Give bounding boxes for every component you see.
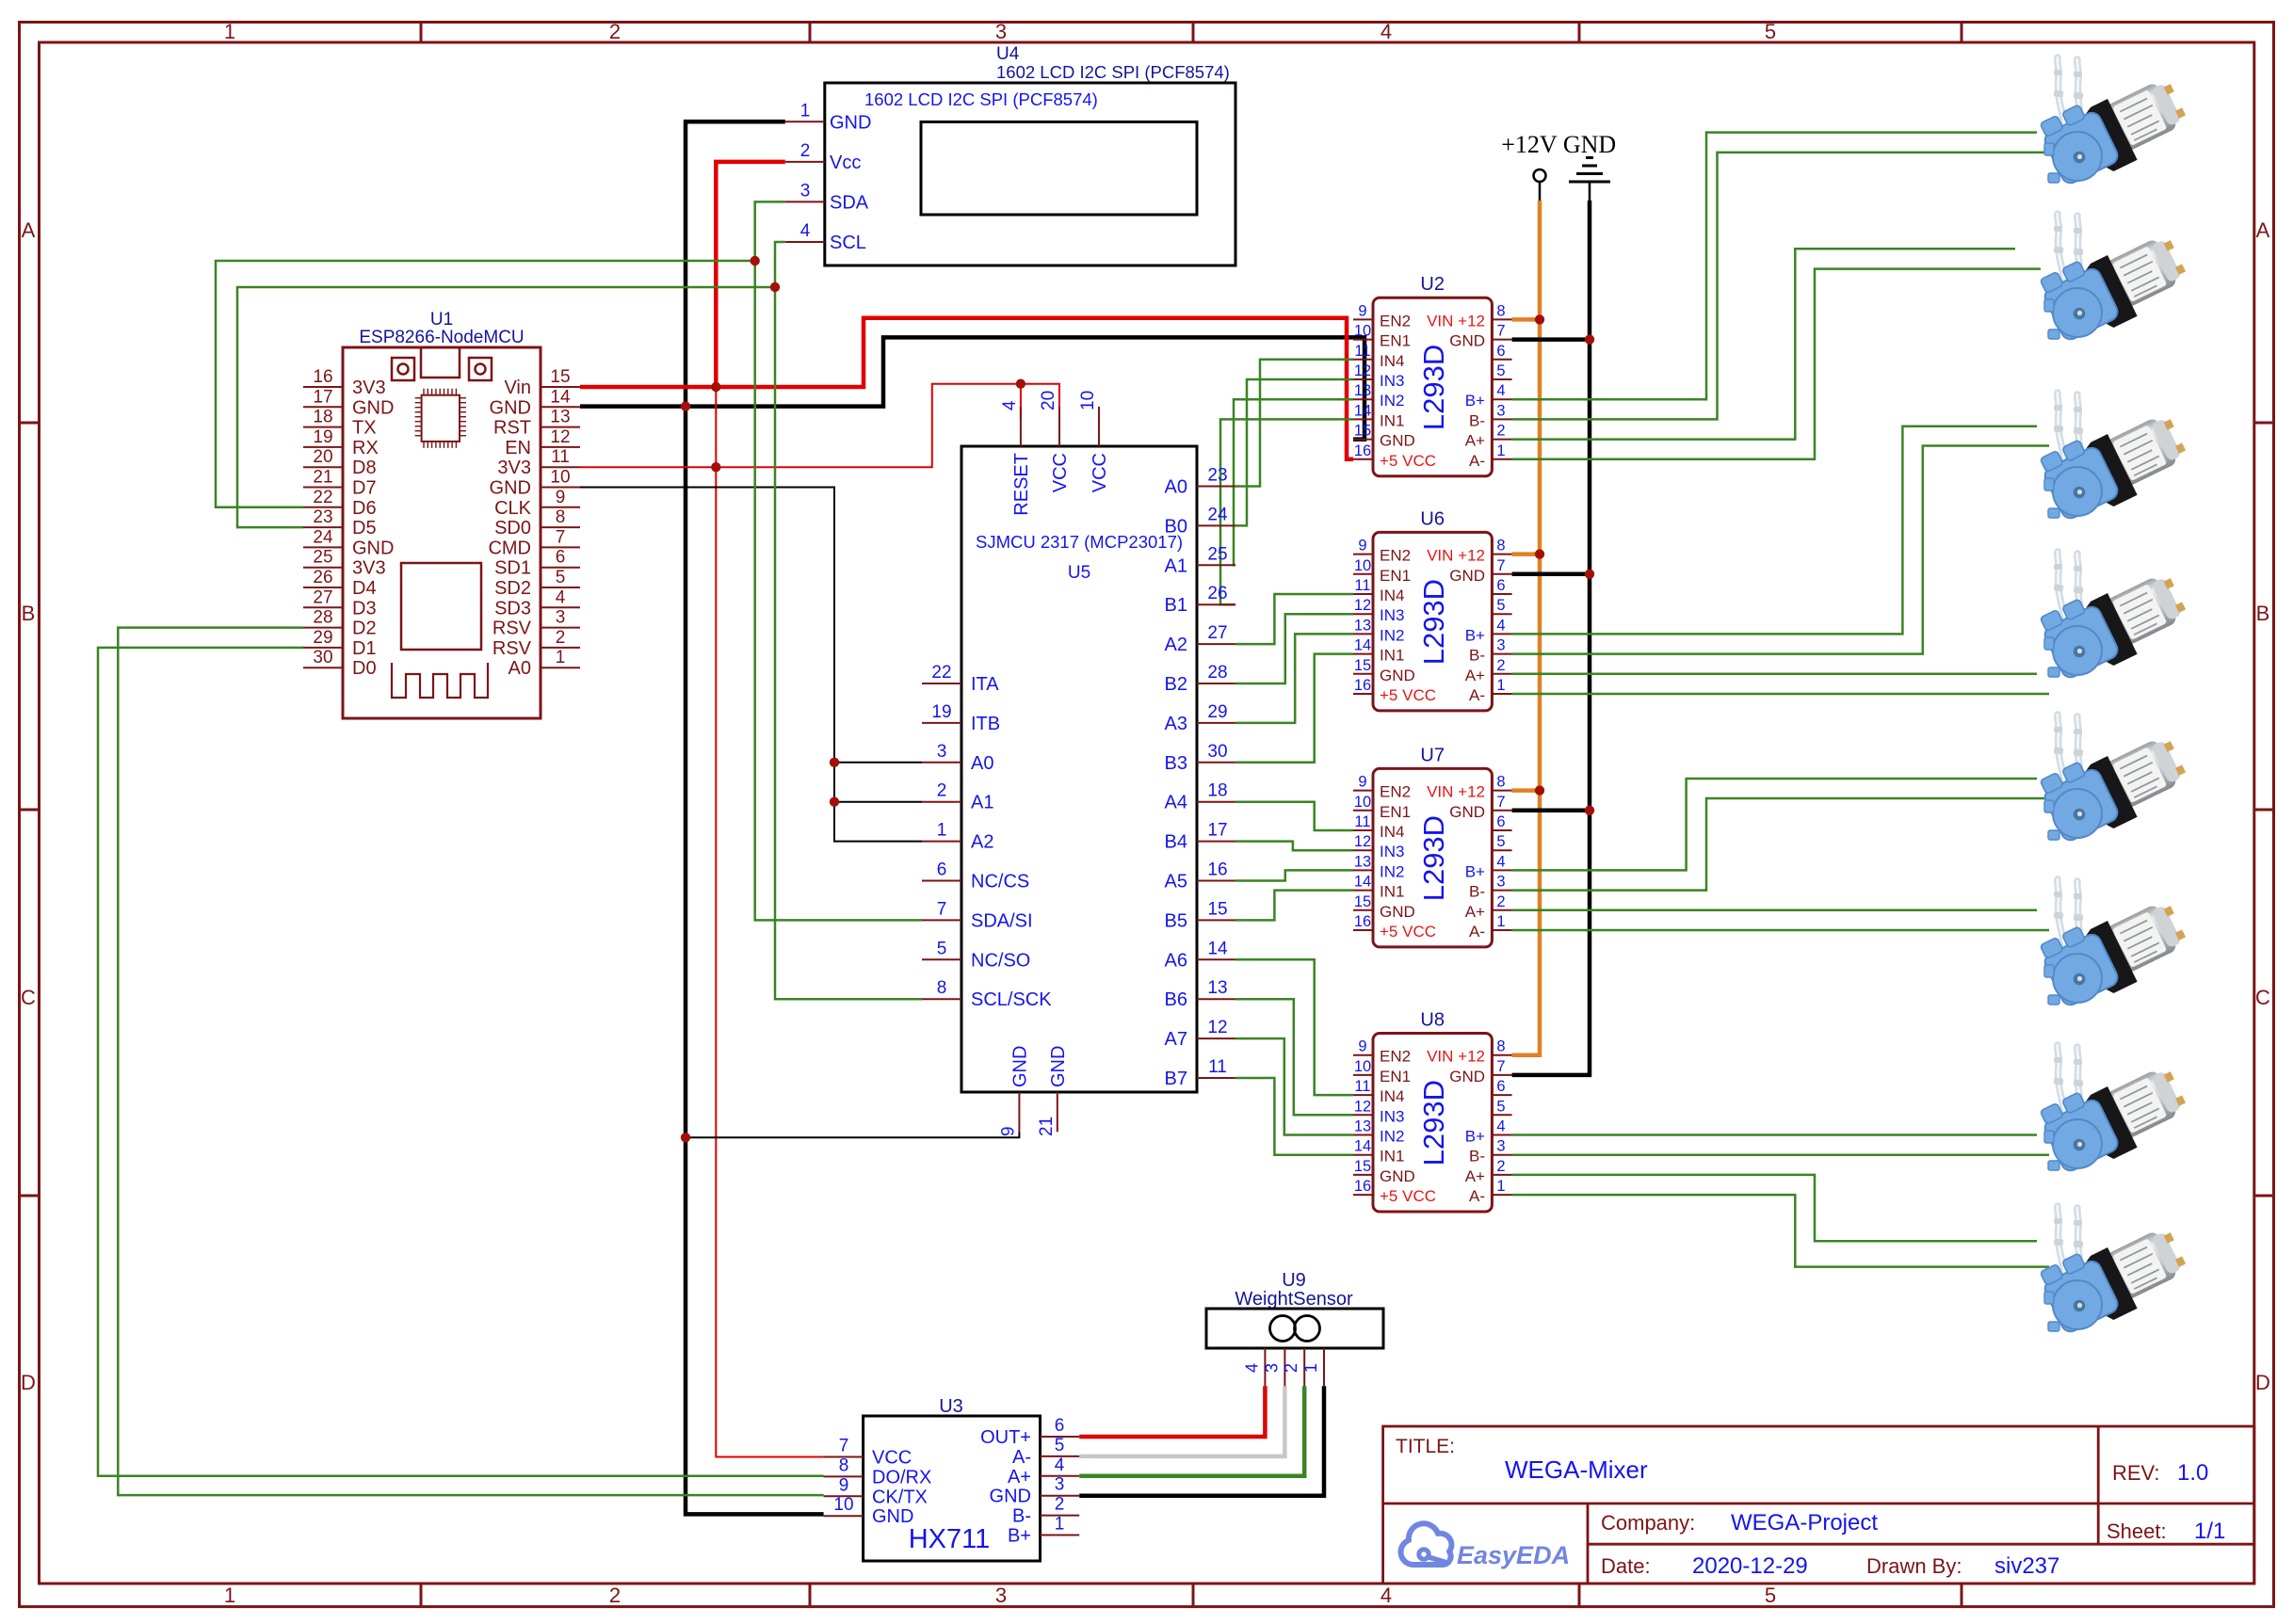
svg-text:GND: GND (1449, 567, 1485, 585)
svg-text:U4: U4 (996, 44, 1020, 64)
svg-text:RSV: RSV (493, 619, 532, 639)
svg-text:GND: GND (1048, 1046, 1069, 1087)
svg-text:B+: B+ (1465, 392, 1485, 410)
svg-text:VIN +12: VIN +12 (1427, 783, 1485, 801)
svg-text:9: 9 (556, 488, 566, 507)
svg-text:15: 15 (1354, 423, 1371, 440)
svg-text:GND: GND (1380, 903, 1415, 921)
svg-text:13: 13 (1354, 617, 1371, 634)
svg-text:ESP8266-NodeMCU: ESP8266-NodeMCU (359, 328, 524, 347)
svg-text:26: 26 (313, 568, 332, 587)
svg-text:B+: B+ (1465, 1128, 1485, 1146)
svg-text:IN2: IN2 (1380, 392, 1404, 410)
svg-text:16: 16 (1354, 1178, 1371, 1195)
svg-text:19: 19 (931, 702, 951, 722)
svg-text:8: 8 (1496, 538, 1505, 555)
svg-text:1: 1 (1496, 913, 1505, 930)
svg-text:A-: A- (1469, 452, 1485, 470)
svg-text:IN2: IN2 (1380, 862, 1404, 880)
svg-text:28: 28 (313, 608, 332, 628)
svg-text:21: 21 (313, 468, 332, 488)
svg-text:10: 10 (833, 1495, 853, 1515)
svg-text:4: 4 (800, 221, 811, 241)
svg-text:REV:: REV: (2112, 1461, 2160, 1485)
svg-text:5: 5 (556, 568, 566, 587)
svg-text:IN1: IN1 (1380, 411, 1404, 429)
svg-text:6: 6 (1496, 813, 1505, 830)
svg-text:A-: A- (1469, 1187, 1485, 1205)
svg-text:11: 11 (1354, 1078, 1370, 1095)
svg-text:A0: A0 (971, 753, 993, 774)
svg-text:EN2: EN2 (1380, 1048, 1411, 1066)
svg-text:A6: A6 (1165, 950, 1187, 971)
svg-text:11: 11 (1354, 577, 1370, 594)
svg-text:1: 1 (556, 648, 566, 667)
svg-text:7: 7 (1496, 1058, 1505, 1075)
svg-text:GND: GND (1380, 1167, 1415, 1185)
svg-text:IN3: IN3 (1380, 372, 1404, 390)
svg-text:3: 3 (995, 1584, 1007, 1607)
svg-text:IN2: IN2 (1380, 626, 1404, 644)
svg-text:D0: D0 (352, 658, 377, 679)
svg-text:6: 6 (1496, 343, 1505, 360)
svg-text:D6: D6 (352, 498, 377, 519)
svg-text:1: 1 (224, 20, 235, 43)
svg-text:15: 15 (1354, 893, 1371, 910)
svg-text:1: 1 (1496, 1178, 1505, 1195)
svg-text:14: 14 (1354, 637, 1371, 654)
svg-text:13: 13 (1354, 382, 1371, 399)
svg-text:29: 29 (1207, 702, 1227, 722)
svg-text:OUT+: OUT+ (980, 1427, 1031, 1448)
svg-text:Company:: Company: (1601, 1511, 1695, 1535)
svg-text:D1: D1 (352, 638, 377, 659)
svg-text:EN1: EN1 (1380, 332, 1411, 350)
svg-text:B-: B- (1012, 1506, 1031, 1527)
svg-text:SD0: SD0 (494, 518, 531, 539)
svg-text:TITLE:: TITLE: (1396, 1436, 1455, 1457)
svg-text:22: 22 (313, 488, 332, 507)
svg-text:Sheet:: Sheet: (2107, 1519, 2167, 1543)
svg-text:5: 5 (1765, 20, 1776, 43)
svg-text:GND: GND (1449, 803, 1485, 821)
svg-text:B+: B+ (1008, 1526, 1031, 1547)
svg-text:CMD: CMD (488, 538, 531, 558)
svg-text:4: 4 (1055, 1455, 1065, 1475)
svg-text:B7: B7 (1165, 1069, 1187, 1089)
svg-text:5: 5 (1496, 362, 1505, 379)
svg-text:16: 16 (1354, 677, 1371, 694)
svg-text:4: 4 (556, 587, 566, 607)
svg-text:A+: A+ (1465, 903, 1485, 921)
svg-text:3: 3 (1262, 1363, 1281, 1373)
svg-text:6: 6 (1496, 1078, 1505, 1095)
svg-text:NC/SO: NC/SO (971, 950, 1030, 971)
svg-text:3: 3 (1496, 637, 1505, 654)
svg-text:4: 4 (1496, 617, 1505, 634)
svg-text:4: 4 (1381, 20, 1392, 43)
svg-text:GND: GND (1449, 332, 1485, 350)
svg-text:1/1: 1/1 (2194, 1519, 2225, 1544)
svg-text:1: 1 (1055, 1515, 1065, 1535)
svg-text:11: 11 (1354, 813, 1370, 830)
svg-text:CK/TX: CK/TX (872, 1487, 928, 1507)
svg-text:VIN +12: VIN +12 (1427, 312, 1485, 330)
svg-text:10: 10 (1354, 323, 1371, 340)
svg-text:10: 10 (1354, 1058, 1371, 1075)
svg-text:12: 12 (1354, 1098, 1371, 1115)
svg-text:5: 5 (1765, 1584, 1776, 1607)
svg-text:8: 8 (1496, 1038, 1505, 1055)
svg-text:28: 28 (1207, 663, 1227, 683)
svg-text:16: 16 (313, 367, 332, 387)
svg-text:5: 5 (1496, 1098, 1505, 1115)
svg-text:C: C (2255, 986, 2270, 1009)
svg-text:1602 LCD I2C SPI (PCF8574): 1602 LCD I2C SPI (PCF8574) (996, 62, 1230, 82)
svg-text:D8: D8 (352, 458, 377, 478)
svg-text:NC/CS: NC/CS (971, 872, 1029, 892)
svg-text:HX711: HX711 (909, 1524, 991, 1554)
svg-text:2: 2 (800, 141, 811, 161)
svg-text:23: 23 (1207, 466, 1227, 486)
svg-text:L293D: L293D (1417, 1080, 1450, 1166)
svg-text:B: B (2256, 602, 2270, 625)
svg-text:27: 27 (313, 587, 332, 607)
svg-text:B+: B+ (1465, 862, 1485, 880)
svg-text:1: 1 (1496, 677, 1505, 694)
svg-text:3V3: 3V3 (352, 378, 386, 398)
svg-text:A: A (2256, 218, 2270, 242)
svg-text:U3: U3 (939, 1396, 963, 1417)
svg-text:14: 14 (1354, 874, 1371, 891)
svg-text:GND: GND (1009, 1046, 1030, 1087)
svg-text:10: 10 (550, 468, 570, 488)
svg-text:14: 14 (1354, 1138, 1371, 1155)
svg-text:EasyEDA: EasyEDA (1457, 1541, 1570, 1569)
svg-text:EN1: EN1 (1380, 1068, 1411, 1085)
svg-text:WEGA-Project: WEGA-Project (1731, 1510, 1878, 1536)
svg-text:B5: B5 (1165, 910, 1187, 931)
svg-text:13: 13 (1354, 1118, 1371, 1135)
svg-text:4: 4 (1000, 400, 1020, 410)
svg-text:9: 9 (998, 1126, 1018, 1136)
svg-text:2: 2 (937, 781, 947, 801)
svg-text:IN4: IN4 (1380, 823, 1404, 841)
svg-text:1: 1 (224, 1584, 235, 1607)
svg-text:20: 20 (313, 447, 332, 467)
svg-text:8: 8 (1496, 774, 1505, 791)
svg-text:SJMCU 2317 (MCP23017): SJMCU 2317 (MCP23017) (976, 532, 1183, 552)
svg-text:12: 12 (550, 427, 570, 447)
svg-text:5: 5 (1496, 833, 1505, 850)
svg-text:4: 4 (1496, 382, 1505, 399)
svg-text:12: 12 (1354, 597, 1371, 614)
svg-text:B1: B1 (1165, 595, 1187, 616)
svg-text:9: 9 (839, 1475, 849, 1495)
svg-text:2020-12-29: 2020-12-29 (1692, 1553, 1808, 1579)
svg-text:3: 3 (995, 20, 1007, 43)
svg-text:IN2: IN2 (1380, 1128, 1404, 1146)
svg-text:11: 11 (1208, 1057, 1227, 1077)
svg-text:B: B (22, 602, 36, 625)
svg-text:RESET: RESET (1011, 453, 1032, 516)
svg-text:IN1: IN1 (1380, 883, 1404, 901)
svg-text:IN4: IN4 (1380, 1087, 1404, 1105)
svg-text:VCC: VCC (1050, 453, 1071, 492)
svg-text:7: 7 (1496, 323, 1505, 340)
svg-text:D: D (21, 1371, 36, 1394)
svg-text:4: 4 (1381, 1584, 1392, 1607)
svg-text:GND: GND (1380, 667, 1415, 684)
svg-text:21: 21 (1037, 1117, 1057, 1136)
svg-text:IN3: IN3 (1380, 1107, 1404, 1125)
svg-text:24: 24 (313, 527, 333, 547)
svg-text:2: 2 (556, 628, 566, 648)
svg-text:C: C (21, 986, 36, 1009)
svg-text:13: 13 (1207, 978, 1227, 998)
svg-text:A+: A+ (1008, 1467, 1031, 1487)
svg-text:9: 9 (1358, 302, 1366, 319)
svg-text:A-: A- (1469, 923, 1485, 941)
svg-text:D: D (2255, 1371, 2270, 1394)
svg-text:A3: A3 (1165, 714, 1187, 734)
svg-text:ITA: ITA (971, 674, 999, 695)
svg-text:16: 16 (1354, 913, 1371, 930)
svg-text:U9: U9 (1282, 1270, 1306, 1291)
svg-text:3: 3 (1496, 402, 1505, 419)
svg-text:RSV: RSV (493, 638, 532, 659)
svg-text:3: 3 (1055, 1475, 1065, 1495)
svg-text:6: 6 (937, 860, 947, 880)
svg-text:7: 7 (839, 1437, 849, 1456)
svg-text:SD1: SD1 (494, 558, 531, 579)
svg-text:A-: A- (1012, 1447, 1031, 1468)
svg-text:1602 LCD I2C SPI (PCF8574): 1602 LCD I2C SPI (PCF8574) (864, 89, 1098, 109)
svg-text:A+: A+ (1465, 667, 1485, 684)
svg-text:GND: GND (1563, 131, 1616, 158)
svg-text:B0: B0 (1165, 516, 1187, 537)
svg-text:D7: D7 (352, 478, 377, 499)
svg-text:3: 3 (1496, 1138, 1505, 1155)
svg-text:8: 8 (839, 1455, 849, 1475)
svg-text:A2: A2 (971, 832, 993, 853)
svg-text:U1: U1 (430, 310, 453, 330)
svg-text:GND: GND (830, 112, 871, 133)
svg-text:B4: B4 (1165, 832, 1187, 853)
svg-text:L293D: L293D (1417, 579, 1450, 665)
svg-text:2: 2 (1282, 1363, 1300, 1373)
svg-text:27: 27 (1207, 623, 1227, 643)
svg-text:A5: A5 (1165, 872, 1187, 892)
svg-text:13: 13 (550, 408, 570, 427)
svg-text:14: 14 (1354, 402, 1371, 419)
svg-text:A0: A0 (1165, 477, 1187, 498)
svg-text:A1: A1 (971, 793, 993, 813)
svg-text:11: 11 (551, 447, 570, 467)
svg-text:SD3: SD3 (494, 598, 531, 619)
svg-text:L293D: L293D (1417, 815, 1450, 901)
svg-text:SD2: SD2 (494, 578, 531, 599)
svg-text:6: 6 (1496, 577, 1505, 594)
svg-text:7: 7 (1496, 557, 1505, 574)
svg-text:3: 3 (1496, 874, 1505, 891)
svg-text:B2: B2 (1165, 674, 1187, 695)
svg-text:D5: D5 (352, 518, 377, 539)
svg-text:2: 2 (609, 20, 621, 43)
svg-text:GND: GND (490, 478, 531, 499)
svg-text:siv237: siv237 (1994, 1553, 2059, 1579)
svg-text:SDA: SDA (830, 192, 869, 213)
svg-text:B-: B- (1469, 883, 1485, 901)
svg-text:EN2: EN2 (1380, 312, 1411, 330)
svg-text:A2: A2 (1165, 635, 1187, 655)
svg-text:24: 24 (1207, 505, 1228, 524)
svg-text:RST: RST (493, 418, 531, 439)
svg-text:11: 11 (1354, 343, 1370, 360)
svg-text:U5: U5 (1068, 563, 1090, 583)
svg-text:VCC: VCC (1090, 453, 1110, 492)
svg-text:1: 1 (937, 821, 947, 841)
svg-text:U7: U7 (1420, 745, 1445, 765)
svg-text:2: 2 (1496, 893, 1505, 910)
svg-text:4: 4 (1496, 853, 1505, 870)
svg-text:22: 22 (931, 663, 951, 683)
svg-text:B-: B- (1469, 411, 1485, 429)
svg-text:2: 2 (1055, 1495, 1065, 1515)
svg-text:B-: B- (1469, 1148, 1485, 1166)
svg-text:30: 30 (313, 648, 332, 667)
svg-text:WeightSensor: WeightSensor (1235, 1289, 1353, 1310)
svg-text:D4: D4 (352, 578, 377, 599)
svg-text:6: 6 (556, 548, 566, 568)
svg-text:5: 5 (937, 939, 947, 958)
svg-text:ITB: ITB (971, 714, 1000, 734)
svg-text:+5 VCC: +5 VCC (1380, 923, 1436, 941)
svg-text:5: 5 (1496, 597, 1505, 614)
svg-text:GND: GND (872, 1506, 913, 1527)
svg-text:IN1: IN1 (1380, 647, 1404, 665)
svg-text:IN4: IN4 (1380, 587, 1404, 604)
svg-text:B3: B3 (1165, 753, 1187, 774)
svg-text:7: 7 (1496, 794, 1505, 811)
svg-text:12: 12 (1207, 1018, 1227, 1037)
svg-text:A: A (22, 218, 36, 242)
svg-text:9: 9 (1358, 538, 1366, 555)
svg-text:Date:: Date: (1601, 1554, 1651, 1578)
svg-text:10: 10 (1354, 794, 1371, 811)
svg-text:TX: TX (352, 418, 377, 439)
svg-text:3V3: 3V3 (497, 458, 531, 478)
svg-text:12: 12 (1354, 833, 1371, 850)
svg-text:8: 8 (937, 978, 947, 998)
svg-text:Vcc: Vcc (830, 153, 861, 173)
svg-text:+12V: +12V (1501, 131, 1558, 158)
svg-text:WEGA-Mixer: WEGA-Mixer (1505, 1455, 1648, 1484)
svg-text:4: 4 (1242, 1363, 1261, 1373)
svg-text:Drawn By:: Drawn By: (1866, 1554, 1962, 1578)
svg-text:17: 17 (313, 387, 332, 407)
svg-text:10: 10 (1078, 391, 1098, 410)
svg-text:IN3: IN3 (1380, 606, 1404, 624)
svg-text:IN4: IN4 (1380, 352, 1404, 370)
svg-text:1.0: 1.0 (2177, 1460, 2208, 1486)
svg-text:EN2: EN2 (1380, 547, 1411, 565)
svg-text:IN1: IN1 (1380, 1148, 1404, 1166)
svg-text:GND: GND (490, 397, 531, 418)
svg-text:15: 15 (1207, 899, 1227, 919)
svg-text:GND: GND (990, 1487, 1031, 1507)
svg-text:+5 VCC: +5 VCC (1380, 1187, 1436, 1205)
svg-text:25: 25 (313, 548, 332, 568)
svg-text:16: 16 (1354, 442, 1371, 459)
svg-text:1: 1 (1496, 442, 1505, 459)
svg-text:3: 3 (937, 742, 947, 762)
svg-text:1: 1 (800, 101, 811, 121)
svg-text:CLK: CLK (494, 498, 532, 519)
svg-text:2: 2 (1496, 657, 1505, 674)
svg-text:SCL/SCK: SCL/SCK (971, 989, 1052, 1010)
svg-text:8: 8 (556, 507, 566, 527)
svg-text:26: 26 (1207, 584, 1227, 603)
svg-text:7: 7 (556, 527, 566, 547)
svg-text:EN1: EN1 (1380, 567, 1411, 585)
svg-text:RX: RX (352, 438, 379, 458)
svg-text:12: 12 (1354, 362, 1371, 379)
svg-text:A+: A+ (1465, 432, 1485, 450)
svg-text:A1: A1 (1165, 555, 1187, 576)
svg-text:4: 4 (1496, 1118, 1505, 1135)
svg-text:30: 30 (1207, 742, 1227, 762)
svg-text:B+: B+ (1465, 626, 1485, 644)
svg-text:16: 16 (1207, 860, 1227, 880)
svg-text:3V3: 3V3 (352, 558, 386, 579)
svg-text:25: 25 (1207, 544, 1227, 564)
svg-text:18: 18 (313, 408, 332, 427)
svg-text:GND: GND (352, 397, 394, 418)
svg-text:20: 20 (1039, 391, 1058, 410)
svg-text:14: 14 (1207, 939, 1228, 958)
svg-text:VIN +12: VIN +12 (1427, 547, 1485, 565)
svg-text:A4: A4 (1165, 793, 1187, 813)
svg-text:2: 2 (1496, 1158, 1505, 1175)
svg-text:B-: B- (1469, 647, 1485, 665)
svg-text:13: 13 (1354, 853, 1371, 870)
svg-text:2: 2 (1496, 423, 1505, 440)
svg-text:Vin: Vin (504, 378, 531, 398)
svg-text:6: 6 (1055, 1416, 1065, 1436)
svg-text:IN3: IN3 (1380, 843, 1404, 860)
svg-text:EN2: EN2 (1380, 783, 1411, 801)
svg-text:A7: A7 (1165, 1029, 1187, 1050)
svg-text:14: 14 (550, 387, 571, 407)
svg-text:15: 15 (550, 367, 570, 387)
svg-text:EN1: EN1 (1380, 803, 1411, 821)
svg-text:8: 8 (1496, 302, 1505, 319)
svg-text:3: 3 (800, 181, 811, 201)
svg-text:17: 17 (1207, 821, 1227, 841)
svg-text:EN: EN (505, 438, 531, 458)
svg-text:10: 10 (1354, 557, 1371, 574)
svg-text:9: 9 (1358, 774, 1366, 791)
svg-text:9: 9 (1358, 1038, 1366, 1055)
svg-text:5: 5 (1055, 1436, 1065, 1455)
svg-text:1: 1 (1301, 1363, 1320, 1373)
svg-text:D2: D2 (352, 619, 377, 639)
svg-text:DO/RX: DO/RX (872, 1467, 931, 1487)
svg-text:19: 19 (313, 427, 332, 447)
svg-text:L293D: L293D (1417, 345, 1450, 430)
svg-text:U8: U8 (1420, 1010, 1445, 1031)
